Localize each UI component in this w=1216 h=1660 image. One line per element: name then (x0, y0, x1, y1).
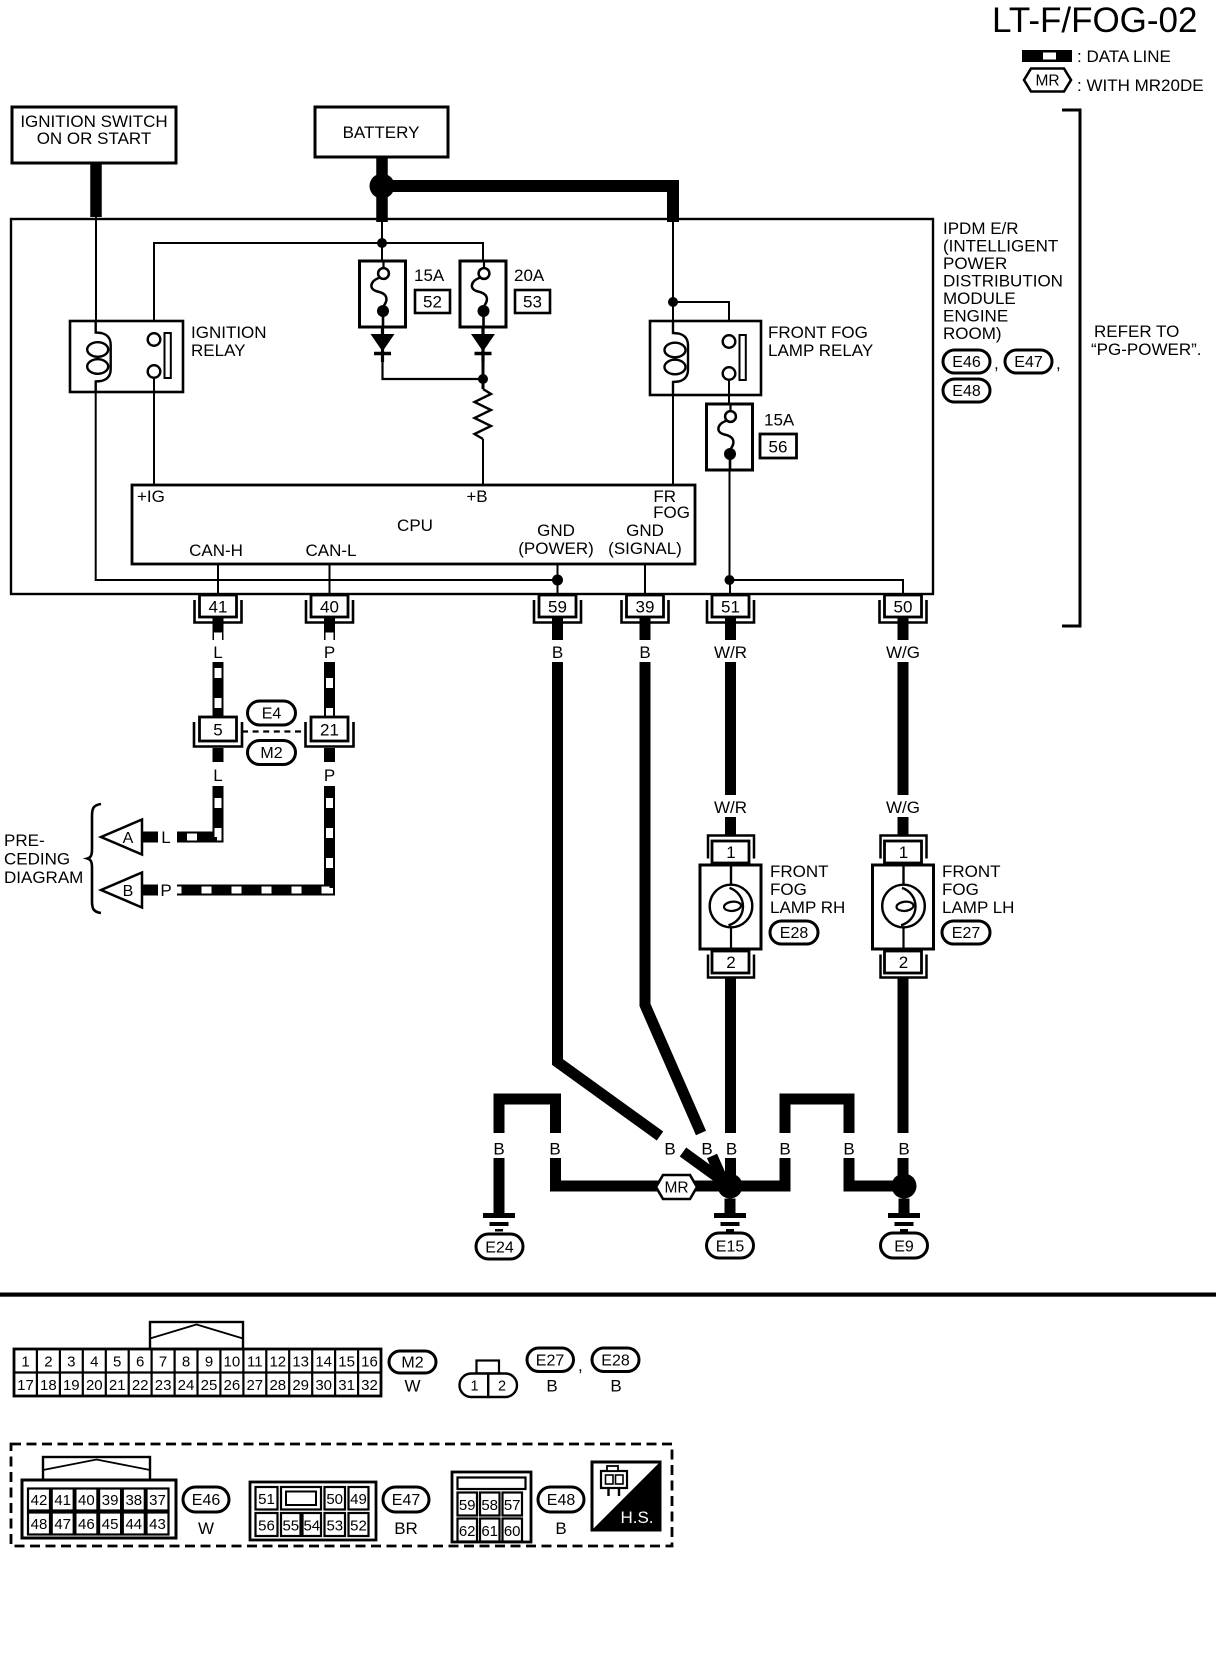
ground ref E9 oval (881, 1233, 928, 1258)
svg-text:W: W (198, 1519, 214, 1538)
svg-text:B: B (555, 1519, 566, 1538)
ground symbol E24 (483, 1199, 515, 1232)
svg-text:41: 41 (209, 598, 228, 617)
svg-text:A: A (123, 830, 134, 847)
svg-text:2: 2 (44, 1354, 52, 1371)
connector ref E47 oval (bottom) (383, 1487, 429, 1538)
svg-text:MR: MR (664, 1180, 688, 1197)
svg-text:E48: E48 (952, 383, 981, 400)
svg-text:(INTELLIGENT: (INTELLIGENT (943, 237, 1058, 256)
front fog lamp RH (700, 836, 845, 1001)
IPDM pin connector 50 (880, 595, 927, 662)
svg-text:E27: E27 (952, 925, 981, 942)
section separator line (0, 1293, 1216, 1297)
page title LT-F/FOG-02 (992, 1, 1198, 40)
svg-text:29: 29 (292, 1377, 309, 1394)
arrow A to preceding diagram (101, 820, 158, 855)
svg-text:5: 5 (213, 721, 222, 740)
svg-text:CAN-H: CAN-H (189, 541, 243, 560)
dashed connector link line (242, 730, 305, 732)
wire to fog relay coil (672, 302, 674, 322)
svg-text:24: 24 (178, 1377, 195, 1394)
ground branch wire E15 to E9 (right U) (730, 1099, 904, 1186)
svg-text:60: 60 (504, 1523, 521, 1540)
connector ref E4 oval (248, 701, 296, 725)
svg-text:9: 9 (205, 1354, 213, 1371)
wire MR line into E15 junction (693, 1181, 730, 1192)
legend MR hexagon (1024, 69, 1204, 96)
svg-text:BATTERY: BATTERY (343, 123, 420, 142)
IPDM connector E48 face (452, 1472, 531, 1542)
wire CAN-H to preceding diagram arrow A (striped) (177, 786, 218, 837)
svg-text:ROOM): ROOM) (943, 324, 1002, 343)
legend data-line symbol (1022, 47, 1171, 66)
svg-text:39: 39 (636, 598, 655, 617)
svg-text:GND: GND (626, 521, 664, 540)
wire fog relay contact to fuse 56 (728, 380, 730, 405)
svg-text:“PG-POWER”.: “PG-POWER”. (1091, 340, 1202, 359)
front fog lamp LH (873, 836, 1015, 1001)
svg-text:62: 62 (459, 1523, 476, 1540)
svg-text:54: 54 (303, 1518, 320, 1535)
harness connector M2 32-pin grid (14, 1349, 381, 1396)
svg-text:37: 37 (149, 1492, 166, 1509)
wire W/G connector 50 to front fog lamp LH (886, 662, 920, 836)
connector ref E28 oval (bottom) (592, 1348, 639, 1396)
svg-text:B: B (779, 1140, 790, 1159)
arrow B to preceding diagram (101, 873, 158, 908)
svg-text:47: 47 (54, 1516, 71, 1533)
svg-text:59: 59 (459, 1497, 476, 1514)
ignition relay (70, 321, 267, 393)
svg-text:41: 41 (54, 1492, 71, 1509)
svg-text:4: 4 (90, 1354, 98, 1371)
svg-text:FRONT: FRONT (942, 862, 1001, 881)
svg-text:M2: M2 (401, 1355, 423, 1372)
svg-text:1: 1 (21, 1354, 29, 1371)
svg-text:53: 53 (326, 1518, 343, 1535)
svg-text:GND: GND (537, 521, 575, 540)
svg-text:DIAGRAM: DIAGRAM (4, 868, 83, 887)
svg-text:MR: MR (1035, 73, 1059, 90)
svg-text:52: 52 (423, 293, 442, 312)
svg-text:CPU: CPU (397, 516, 433, 535)
svg-text:(SIGNAL): (SIGNAL) (608, 539, 682, 558)
wire diode 53 to junction node (482, 356, 485, 389)
svg-text:B: B (493, 1140, 504, 1159)
svg-text:50: 50 (326, 1491, 343, 1508)
H.S. view logo (592, 1462, 660, 1530)
svg-text:58: 58 (481, 1497, 498, 1514)
connector ref M2 oval (248, 741, 296, 765)
svg-text:LAMP LH: LAMP LH (942, 898, 1014, 917)
connector ref E48 oval (943, 379, 990, 402)
wire fuse 52 output to junction (383, 356, 484, 379)
wire junction to connector 50 (730, 580, 904, 596)
refer-to bracket (1062, 110, 1080, 626)
connector ref E46 oval (bottom) (183, 1487, 229, 1538)
svg-text:E28: E28 (780, 925, 809, 942)
IPDM pin connector 51 (707, 595, 754, 662)
wire GND(POWER) pin to connector 59 (557, 564, 559, 596)
svg-text:,: , (578, 1356, 583, 1375)
MR hexagon tag (656, 1175, 697, 1199)
svg-text:17: 17 (17, 1377, 34, 1394)
svg-text:IGNITION: IGNITION (191, 323, 267, 342)
svg-text:E46: E46 (192, 1492, 221, 1509)
svg-text:20: 20 (86, 1377, 103, 1394)
svg-text:B: B (549, 1140, 560, 1159)
resistor to +B (475, 389, 492, 486)
harness connector E27/E28 2-pin (460, 1361, 518, 1398)
svg-text:50: 50 (894, 598, 913, 617)
svg-text:3: 3 (67, 1354, 75, 1371)
svg-text:2: 2 (498, 1379, 506, 1395)
svg-text:W/R: W/R (714, 643, 747, 662)
svg-text:E28: E28 (601, 1353, 630, 1370)
ground ref E24 oval (476, 1234, 523, 1259)
svg-text:P: P (324, 643, 335, 662)
svg-text:B: B (701, 1140, 712, 1159)
wire GND(SIGNAL) pin to connector 39 (644, 564, 646, 596)
refer-to text (1091, 322, 1202, 359)
ignition switch box (12, 107, 176, 163)
svg-text:L: L (213, 643, 222, 662)
battery box (315, 107, 448, 157)
svg-text:27: 27 (246, 1377, 263, 1394)
wire front fog lamp RH ground (726, 1000, 737, 1178)
svg-text:39: 39 (102, 1492, 119, 1509)
svg-text:FOG: FOG (770, 880, 807, 899)
svg-text:15A: 15A (414, 266, 445, 285)
harness connector 5 (E4/M2 junction, CAN-H) (194, 717, 242, 785)
svg-text:51: 51 (721, 598, 740, 617)
svg-text:FOG: FOG (942, 880, 979, 899)
wire fuse 56 to lamp feed junction (729, 470, 731, 580)
svg-text:L: L (213, 766, 222, 785)
svg-text:ON OR START: ON OR START (37, 129, 152, 148)
svg-text:LAMP RH: LAMP RH (770, 898, 845, 917)
svg-text:B: B (552, 643, 563, 662)
detail area dashed box (11, 1444, 672, 1546)
svg-text:FOG: FOG (653, 503, 690, 522)
svg-text:+IG: +IG (137, 487, 165, 506)
ground symbol E9 (888, 1199, 920, 1232)
wire CAN-L data line connector 40 to connector 21 (striped) (324, 662, 335, 717)
svg-text:18: 18 (40, 1377, 57, 1394)
svg-text:28: 28 (269, 1377, 286, 1394)
wire fog relay coil to CPU FR FOG (672, 394, 674, 487)
thick battery stub down through IPDM edge (376, 186, 388, 222)
svg-text:B: B (639, 643, 650, 662)
wire fuse-feed rail from ignition relay contact to fuse 53 (154, 243, 483, 334)
svg-text:E15: E15 (716, 1239, 745, 1256)
IPDM pin connector 41 (195, 595, 242, 662)
harness connector 21 (E4/M2 junction, CAN-L) (306, 717, 354, 785)
CPU box (132, 485, 695, 564)
label box 52 (415, 290, 450, 313)
svg-text:CEDING: CEDING (4, 850, 70, 869)
wire into fuse 52 (381, 243, 383, 261)
svg-text:12: 12 (269, 1354, 286, 1371)
label box 53 (515, 290, 550, 313)
svg-text:RELAY: RELAY (191, 341, 246, 360)
svg-text:40: 40 (320, 598, 339, 617)
svg-text:B: B (726, 1140, 737, 1159)
front fog lamp relay (650, 321, 873, 395)
svg-text:B: B (546, 1377, 557, 1396)
svg-text:FRONT FOG: FRONT FOG (768, 323, 868, 342)
svg-text:W: W (404, 1377, 420, 1396)
IPDM E/R enclosure box (11, 219, 933, 594)
svg-text:LT-F/FOG-02: LT-F/FOG-02 (992, 1, 1198, 40)
thin battery feed to fuse junction (381, 222, 383, 243)
svg-text:PRE-: PRE- (4, 831, 45, 850)
svg-text:CAN-L: CAN-L (305, 541, 356, 560)
connector ref M2 oval (bottom) (389, 1351, 436, 1396)
wire CAN-H data line connector 41 to connector 5 (striped) (213, 662, 224, 717)
svg-text:7: 7 (159, 1354, 167, 1371)
junction node lamp feed (725, 575, 735, 585)
svg-text:31: 31 (338, 1377, 355, 1394)
connector ref E48 oval (bottom) (538, 1487, 584, 1538)
svg-text:P: P (160, 881, 171, 900)
connector ref E27 oval (942, 921, 990, 944)
wire ignition relay contact to CPU +IG (153, 378, 155, 486)
svg-text:E46: E46 (952, 354, 981, 371)
svg-text:57: 57 (504, 1497, 521, 1514)
svg-text:H.S.: H.S. (620, 1508, 653, 1527)
svg-text:E47: E47 (1014, 354, 1043, 371)
svg-text:56: 56 (258, 1518, 275, 1535)
svg-text:(POWER): (POWER) (518, 539, 594, 558)
svg-text:,: , (1056, 354, 1061, 373)
diode under fuse 53 (471, 326, 495, 362)
svg-text:25: 25 (201, 1377, 218, 1394)
svg-text:11: 11 (247, 1354, 263, 1371)
svg-text:32: 32 (361, 1377, 378, 1394)
svg-text:MODULE: MODULE (943, 289, 1016, 308)
diode under fuse 52 (371, 326, 395, 362)
wire GND(SIGNAL) 39 to ground junction (vertical + diagonal) (645, 662, 723, 1181)
IPDM E/R label text (943, 219, 1063, 343)
svg-text:48: 48 (31, 1516, 48, 1533)
svg-text:26: 26 (224, 1377, 241, 1394)
wire CAN-H pin to connector 41 (217, 564, 219, 596)
svg-text:52: 52 (350, 1518, 367, 1535)
svg-text:FRONT: FRONT (770, 862, 829, 881)
IPDM pin connector 39 (622, 595, 669, 662)
junction node GND(POWER) with relay coil rail (552, 575, 563, 586)
svg-text:W/R: W/R (714, 798, 747, 817)
svg-text:49: 49 (350, 1491, 367, 1508)
svg-text:38: 38 (125, 1492, 142, 1509)
svg-text:ENGINE: ENGINE (943, 307, 1008, 326)
svg-text:30: 30 (315, 1377, 332, 1394)
svg-text:14: 14 (315, 1354, 332, 1371)
wire CAN-L to preceding diagram arrow B (striped) (177, 786, 330, 890)
svg-text:51: 51 (258, 1491, 275, 1508)
svg-text:: DATA LINE: : DATA LINE (1077, 47, 1171, 66)
preceding diagram label (4, 831, 83, 887)
svg-text:E47: E47 (392, 1492, 421, 1509)
wire battery to junction dot (376, 157, 388, 180)
connector ref E46 oval (943, 350, 999, 373)
svg-text:61: 61 (481, 1523, 498, 1540)
svg-text:B: B (843, 1140, 854, 1159)
fuse 53 (20A) (460, 260, 506, 328)
junction node of fuse outputs (478, 374, 488, 384)
svg-text:15A: 15A (764, 411, 795, 430)
svg-text:B: B (610, 1377, 621, 1396)
svg-text:E24: E24 (485, 1240, 514, 1257)
svg-text:: WITH MR20DE: : WITH MR20DE (1077, 76, 1204, 95)
wire GND(POWER) 59 to ground junction (vertical + diagonal) (558, 662, 724, 1181)
svg-text:43: 43 (149, 1516, 166, 1533)
junction node at fuse 52 feed (377, 238, 387, 248)
svg-text:E9: E9 (894, 1239, 914, 1256)
thick battery feed wire to right and down into IPDM (388, 186, 673, 222)
svg-text:BR: BR (394, 1519, 418, 1538)
svg-text:46: 46 (78, 1516, 95, 1533)
svg-text:E48: E48 (547, 1492, 576, 1509)
svg-text:21: 21 (320, 721, 339, 740)
ground branch wire E24 (left U) (493, 1099, 660, 1200)
svg-text:W/G: W/G (886, 643, 920, 662)
IPDM pin connector 40 (306, 595, 353, 662)
IPDM connector E46 face (22, 1457, 176, 1538)
svg-text:22: 22 (132, 1377, 149, 1394)
wire front fog lamp LH ground (898, 1000, 909, 1177)
wire W/R connector 51 to front fog lamp RH (714, 662, 747, 836)
wire junction to connector 51 (729, 580, 731, 596)
junction node front fog relay feed (668, 297, 678, 307)
svg-text:53: 53 (523, 293, 542, 312)
svg-text:15: 15 (338, 1354, 355, 1371)
ground ref E15 oval (707, 1233, 754, 1258)
svg-text:56: 56 (769, 438, 788, 457)
label box 56 (760, 434, 797, 458)
svg-text:,: , (994, 354, 999, 373)
connector ref E28 oval (770, 921, 818, 944)
svg-text:1: 1 (470, 1379, 478, 1395)
IPDM connector E47 face (250, 1482, 376, 1540)
svg-text:B: B (123, 883, 134, 900)
svg-text:59: 59 (548, 598, 567, 617)
ground junction node E9 (892, 1174, 917, 1199)
svg-text:8: 8 (182, 1354, 190, 1371)
thin continuation of battery feed to fog relay junction (672, 222, 674, 302)
svg-text:IPDM E/R: IPDM E/R (943, 219, 1019, 238)
ground junction node E15 (718, 1174, 743, 1199)
battery junction node (big dot) (370, 174, 395, 199)
svg-text:M2: M2 (260, 745, 282, 762)
svg-text:L: L (161, 828, 170, 847)
svg-text:+B: +B (466, 487, 487, 506)
svg-text:42: 42 (31, 1492, 48, 1509)
svg-text:E4: E4 (262, 706, 282, 723)
svg-text:LAMP RELAY: LAMP RELAY (768, 341, 873, 360)
svg-text:POWER: POWER (943, 254, 1007, 273)
wire ignition relay coil to ground rail (96, 392, 558, 580)
svg-text:6: 6 (136, 1354, 144, 1371)
svg-text:13: 13 (292, 1354, 309, 1371)
fuse 52 (15A) (360, 260, 406, 328)
wire branch to fog relay contact (673, 302, 729, 336)
svg-text:23: 23 (155, 1377, 172, 1394)
svg-text:5: 5 (113, 1354, 121, 1371)
svg-text:W/G: W/G (886, 798, 920, 817)
svg-text:DISTRIBUTION: DISTRIBUTION (943, 272, 1063, 291)
wire CAN-L pin to connector 40 (329, 564, 331, 596)
IPDM pin connector 59 (534, 595, 581, 662)
svg-text:10: 10 (224, 1354, 241, 1371)
svg-text:21: 21 (109, 1377, 126, 1394)
svg-text:19: 19 (63, 1377, 80, 1394)
svg-text:E27: E27 (536, 1353, 565, 1370)
fuse 56 (15A) (707, 403, 753, 471)
svg-text:B: B (898, 1140, 909, 1159)
svg-text:REFER TO: REFER TO (1094, 322, 1179, 341)
svg-text:45: 45 (102, 1516, 119, 1533)
svg-text:40: 40 (78, 1492, 95, 1509)
ground symbol E15 (714, 1199, 746, 1232)
connector ref E27 oval (bottom) (527, 1348, 583, 1396)
svg-text:P: P (324, 766, 335, 785)
harness connector M2 key tab (150, 1322, 243, 1349)
svg-text:44: 44 (125, 1516, 142, 1533)
svg-text:55: 55 (282, 1518, 299, 1535)
svg-text:B: B (664, 1140, 675, 1159)
connector ref E47 oval (1005, 350, 1061, 373)
svg-text:20A: 20A (514, 266, 545, 285)
svg-text:16: 16 (361, 1354, 378, 1371)
preceding diagram brace (88, 804, 102, 913)
wire ignition switch to ignition relay (thick stub then thin) (90, 163, 102, 323)
